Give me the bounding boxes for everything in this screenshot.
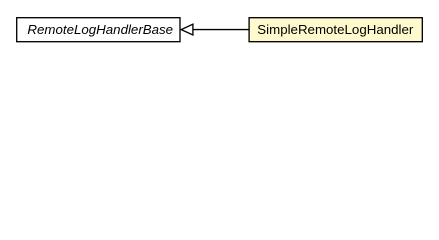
inheritance arrow (hollow triangle + line): [181, 24, 249, 35]
background: [0, 0, 439, 59]
class box RemoteLogHandlerBase: [17, 18, 180, 42]
class box SimpleRemoteLogHandler (current, yellow): [249, 18, 422, 42]
svg-text:RemoteLogHandlerBase: RemoteLogHandlerBase: [27, 22, 173, 37]
svg-text:SimpleRemoteLogHandler: SimpleRemoteLogHandler: [257, 22, 414, 37]
